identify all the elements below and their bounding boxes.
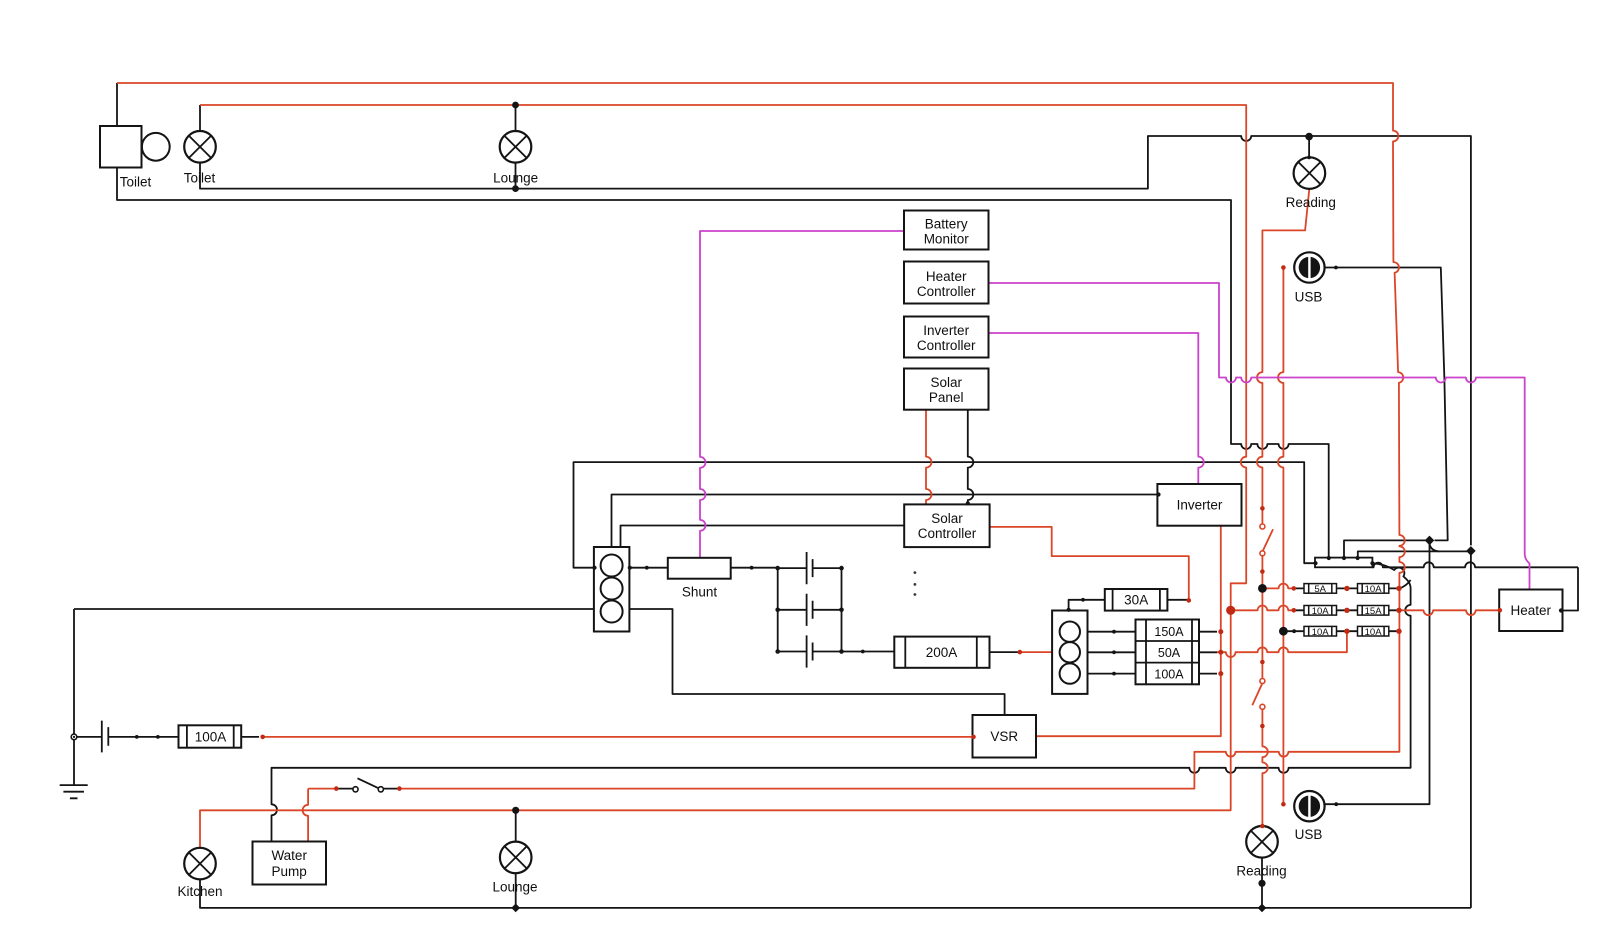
- box: Heater: [1499, 590, 1562, 632]
- switch: pump switch contacts: [353, 787, 384, 792]
- svg-text:Pump: Pump: [272, 864, 307, 879]
- wire: reading lamp (top) drop from bus y=136: [1308, 136, 1310, 158]
- wire: pump switch left contact lead: [336, 788, 353, 790]
- wire: chassis wire y=609 from battery node to terminal block left: [74, 608, 594, 610]
- wire: fuse row3 mid/right black leads: [1337, 630, 1400, 632]
- ground symbol: [60, 785, 88, 798]
- switch: switch1 contacts (reading circuit): [1260, 524, 1265, 556]
- node: row2 mid junction: [1344, 608, 1349, 613]
- svg-text:Reading: Reading: [1236, 864, 1286, 879]
- svg-text:Lounge: Lounge: [492, 880, 537, 895]
- svg-text:30A: 30A: [1124, 593, 1148, 608]
- node: lounge return junction: [512, 185, 519, 192]
- wire: battery bank row3 to 200A fuse: [842, 651, 895, 653]
- node: connector block top terminal: [1067, 608, 1071, 612]
- node: usb(top) right lead end: [1334, 266, 1338, 270]
- wire: lounge lamp (bottom) drop from red bus black: [515, 810, 517, 842]
- battery cell row1 plates: [807, 552, 813, 584]
- node: 200A red link end: [1018, 650, 1023, 655]
- node: fuse row3 feed junction on usb line: [1279, 627, 1288, 636]
- wire: battery monitor magenta to shunt top with hops: [700, 231, 904, 558]
- svg-text:50A: 50A: [1158, 646, 1181, 660]
- svg-text:10A: 10A: [1365, 584, 1383, 595]
- node: pump switch right lead end: [397, 786, 402, 791]
- node: bus-bar top terminal 1: [1327, 556, 1331, 560]
- wire: rail y=551.4 from bus-bar top corner east to diamond2: [1358, 551, 1471, 557]
- node: reading(top) feed junction: [1305, 133, 1313, 141]
- wire: pump switch lever: [358, 778, 381, 789]
- svg-text:100A: 100A: [195, 730, 227, 745]
- wire: pump switch right contact lead: [383, 788, 399, 790]
- node: battery negative terminal circle: [71, 734, 77, 740]
- wire: solar panel red lead down to solar controller with hops: [926, 410, 932, 505]
- battery cell row3 leads: [778, 651, 842, 653]
- wire: heater controller magenta east, down, bus y=377.5 east with hops, down to heater top: [989, 283, 1530, 590]
- node: solar controller top terminal: [966, 501, 970, 505]
- wire: lounge lamp (bottom) to bottom bus: [515, 873, 517, 908]
- wire: 100A fuse right black lead: [241, 736, 259, 738]
- svg-text:Kitchen: Kitchen: [177, 884, 222, 899]
- node: terminal block left terminal: [592, 566, 596, 570]
- usb outlet (top): [1294, 252, 1324, 282]
- wire: reading lamp (bottom) to bottom bus: [1261, 858, 1263, 908]
- node: usb(bottom) left terminal: [1281, 802, 1286, 807]
- battery cell row2 plates: [807, 594, 813, 626]
- fuse: 100A (starter battery): [179, 725, 242, 747]
- box: Inverter Controller: [904, 317, 989, 358]
- wire: 200A fuse right black lead: [990, 651, 1020, 653]
- node: 100A lead terminal: [1112, 672, 1116, 676]
- wire: diamond1 S-link down to y=551.4 rail: [1430, 542, 1440, 551]
- wire: battery bank right rail: [841, 568, 843, 651]
- node: heater right terminal: [1559, 608, 1563, 612]
- svg-text:VSR: VSR: [990, 729, 1018, 744]
- node: lounge(bottom) bottom-bus diamond junction: [511, 904, 520, 913]
- wire: shunt right lead to battery bank: [731, 567, 778, 569]
- fuse: 10A (row3 col2): [1358, 626, 1389, 637]
- svg-text:Battery: Battery: [925, 217, 968, 232]
- fuse: 30A: [1105, 589, 1168, 611]
- svg-text:USB: USB: [1295, 827, 1323, 842]
- node: terminal block right terminal: [628, 566, 632, 570]
- node: switch2 lower lead dot: [1260, 724, 1265, 729]
- svg-text:Inverter: Inverter: [1177, 498, 1223, 513]
- connector block (battery fuses) with 3 ring terminals: [1052, 611, 1087, 694]
- svg-text:10A: 10A: [1312, 627, 1330, 638]
- node: fuse row1 feed junction on switch1 line: [1258, 584, 1267, 593]
- wire: switch2 lower lead down with hops to reading lamp (bottom): [1262, 709, 1267, 826]
- node: row1 fuse left lead dot: [1292, 586, 1297, 591]
- wire: battery bank left rail: [777, 568, 779, 651]
- wire: diamond2 vertical continues down to bottom bus corner: [1470, 551, 1472, 908]
- node: shunt right lead terminal: [750, 566, 754, 570]
- node: row1 right end on red riser: [1396, 586, 1401, 591]
- node: 30A left lead end: [1081, 598, 1085, 602]
- fuse: 10A (row3 col1): [1304, 626, 1337, 637]
- wire: diamond1 down leg to corner west into usb (bottom) right lead: [1325, 540, 1430, 804]
- node: 100A fuse red lead end: [260, 735, 265, 740]
- wire: fuse row2 mid link: [1294, 609, 1399, 611]
- wire: lounge lamp bottom drop to bus y=188.6: [515, 163, 517, 189]
- terminal block (shunt side) with 3 ring terminals: [594, 547, 630, 632]
- svg-text:10A: 10A: [1365, 627, 1383, 638]
- wire: solar controller output to 30A fuse right lead: [990, 527, 1189, 600]
- wire: 100A fuse lead: [1199, 673, 1217, 675]
- svg-text:Controller: Controller: [918, 526, 977, 541]
- fuse: 10A (row2 col1): [1304, 606, 1337, 617]
- svg-text:5A: 5A: [1314, 584, 1326, 595]
- lamp: Lounge (top): [500, 131, 532, 163]
- lamp: Reading (top): [1294, 157, 1326, 189]
- wire: inverter controller magenta east and down to inverter top with hop: [989, 333, 1204, 484]
- node: heater left terminal: [1498, 608, 1503, 613]
- node: 50A lead terminal: [1112, 650, 1116, 654]
- battery cell row2 leads: [778, 609, 842, 611]
- wire: water pump black feed riser x=271.5 with hop over kitchen red bus, plus black bus y=767.8 east with hops, corner up at x=1410.6: [272, 640, 1411, 842]
- svg-text:Toilet: Toilet: [184, 171, 216, 186]
- node: lounge top feed junction: [512, 102, 519, 109]
- box: Solar Panel: [904, 369, 989, 410]
- wire: diamond1 west branch y=540.4 with corner down to bus-bar top: [1344, 540, 1430, 557]
- svg-text:Heater: Heater: [926, 269, 967, 284]
- fuse box: 150A / 50A / 100A: [1136, 620, 1200, 685]
- node: inverter left terminal: [1156, 492, 1160, 496]
- box: Solar Controller: [904, 504, 989, 547]
- wire: solar panel black lead down to solar controller with hops: [968, 410, 974, 505]
- node: diamond junction 1: [1425, 536, 1435, 546]
- starter battery cell plates: [102, 721, 109, 753]
- wire: terminal block right y=609 down and east bus y=694 to VSR top: [629, 609, 1004, 715]
- bus-bar rectangle: [1315, 558, 1372, 568]
- node: 50A lead end on inverter riser: [1218, 650, 1223, 655]
- node: row2 right end on red riser: [1396, 608, 1401, 613]
- fuse: 10A (row1 col2): [1358, 584, 1389, 595]
- usb outlet (bottom): [1294, 791, 1324, 821]
- wire: battery negative drop to node and ground: [73, 609, 75, 785]
- wire: switch1 lower lead to fuse row1 junction and down to switch2: [1261, 556, 1263, 679]
- node: usb(bottom) right lead end: [1334, 802, 1338, 806]
- node: battery bank output terminal: [861, 650, 865, 654]
- node: row2 fuse left lead dot: [1292, 608, 1297, 613]
- wire: fuse row1 feed from switch1 junction with hop: [1262, 584, 1294, 589]
- fuse: 5A (row1 col1): [1304, 584, 1337, 595]
- wire: red feed bus 2 y=105 east corner x=1246.2 descending, jog to x=1230.7, fuse row2 feed dot, down to kitchen/lounge bus y=810.3, kitchen drop: [200, 105, 1246, 848]
- wire: water pump switch red feed from corner down to pump with hop: [303, 789, 337, 842]
- node: reading(bottom) top terminal: [1260, 824, 1265, 829]
- box: Battery Monitor: [904, 211, 989, 250]
- switch: switch2 contacts: [1260, 679, 1265, 710]
- wire: bottom return bus y=907.9 from kitchen lamp to east riser: [200, 879, 1471, 908]
- node: bank rail joints: [775, 566, 780, 571]
- wire: bus y=567.3 east from bus-bar bottom-right with hops to heater riser: [1372, 562, 1578, 567]
- node: switch1 upper lead dot: [1260, 506, 1265, 511]
- wire: 200A fuse to connector block red link: [1020, 651, 1053, 653]
- svg-text:Heater: Heater: [1511, 603, 1552, 618]
- node: reading(bottom) bottom-bus junction: [1258, 904, 1267, 913]
- box: VSR: [973, 715, 1037, 758]
- svg-text:150A: 150A: [1154, 625, 1184, 639]
- svg-text:Inverter: Inverter: [923, 323, 969, 338]
- node: pump switch left lead end: [334, 786, 339, 791]
- starter battery leads to 100A fuse: [77, 736, 179, 738]
- node: bus-bar top terminal 3: [1356, 556, 1360, 560]
- wire: toilet fan bottom return bus y=200 to east riser x=1231 down to bus y=444 into bus-bar rect top: [117, 168, 1329, 558]
- wire: usb feed riser x=1283.4 from usb (top) down to usb (bottom): [1278, 268, 1283, 805]
- node: fuse row3 left lead end: [1292, 629, 1296, 633]
- node: 100A lead end on inverter riser: [1218, 671, 1223, 676]
- svg-text:Controller: Controller: [917, 338, 976, 353]
- svg-text:Solar: Solar: [930, 375, 962, 390]
- wire: hook from fuse row1 right end up to riser x=1410.6: [1400, 580, 1411, 588]
- svg-text:Reading: Reading: [1286, 195, 1336, 210]
- wire: bus A y=462.1 from terminal block left-mid riser west end to bus-bar left-mid: [574, 462, 1316, 568]
- lamp: Kitchen: [184, 848, 216, 880]
- wire: row3 fuse left black lead: [1283, 630, 1304, 632]
- node: lounge(bottom) feed junction: [512, 807, 519, 814]
- wire: battery 100A red bus west to VSR left: [263, 736, 973, 738]
- wire: 30A fuse right lead: [1167, 599, 1188, 601]
- svg-text:15A: 15A: [1365, 606, 1383, 617]
- wire: inverter red riser down through fuse lead junctions to VSR right: [1036, 526, 1221, 737]
- box: Inverter: [1157, 484, 1241, 526]
- wire: connector block to 50A fuse: [1088, 651, 1136, 653]
- wire: connector block to 150A fuse: [1088, 631, 1136, 633]
- battery cell row1 leads: [778, 567, 842, 569]
- node: usb(top) left terminal: [1281, 265, 1286, 270]
- fuse: Shunt: [668, 558, 731, 579]
- wire: connector block to 100A fuse: [1088, 673, 1136, 675]
- wire: shunt left lead from terminal block: [629, 567, 667, 569]
- ellipsis dots (more batteries): [914, 571, 917, 596]
- node: row3 mid junction: [1344, 629, 1349, 634]
- node: reading(top) drop end: [1307, 156, 1311, 160]
- node: diamond junction 2: [1466, 546, 1476, 556]
- svg-text:Monitor: Monitor: [924, 232, 970, 247]
- battery cell row3 plates: [807, 635, 813, 667]
- fuse: 15A (row2 col2): [1358, 606, 1389, 617]
- node: row1 mid junction: [1344, 586, 1349, 591]
- svg-text:Toilet: Toilet: [120, 175, 152, 190]
- node: row2 junction big dot: [1226, 606, 1235, 615]
- wire: red feed bus 1 y=83 from toilet fan, east corner x=1399 descending with hops, fuse rows, west bus y=751.8, jog down to switch bus y=788.6: [117, 83, 1405, 789]
- wire: 150A fuse lead to inverter red riser: [1199, 631, 1217, 633]
- wire: heater right lead up to bus y=567.3: [1563, 567, 1579, 610]
- node: reading(bottom) below-lamp junction: [1258, 880, 1265, 887]
- wire: fuse row1 mid link: [1294, 587, 1399, 589]
- svg-text:Lounge: Lounge: [493, 171, 538, 186]
- lamp: Lounge (bottom): [500, 842, 532, 874]
- node: bus-bar top terminal 2: [1342, 556, 1346, 560]
- junction dots black: [135, 102, 1563, 913]
- svg-text:Panel: Panel: [929, 390, 964, 405]
- wire: switch1 lever: [1263, 529, 1273, 551]
- wire: 50A fuse lead: [1199, 651, 1217, 653]
- node: switch1 lower lead dot: [1260, 569, 1265, 574]
- junction dots red: [260, 265, 1502, 828]
- svg-text:Solar: Solar: [931, 511, 963, 526]
- wire: bus B y=494.5 from terminal block top to inverter left: [612, 495, 1158, 548]
- svg-text:USB: USB: [1295, 290, 1323, 305]
- toilet fan motor: [100, 126, 170, 168]
- svg-text:Shunt: Shunt: [682, 585, 718, 600]
- node: 150A lead terminal: [1112, 630, 1116, 634]
- node: switch2 upper lead dot: [1260, 660, 1265, 665]
- wire: usb (top) right lead east then leaning riser down to diamond junction row: [1325, 268, 1448, 541]
- wire: fuse row2 feed from junction x=1230.7 with hops: [1231, 606, 1294, 611]
- svg-text:100A: 100A: [1154, 667, 1184, 681]
- lamp: Toilet: [184, 131, 216, 163]
- node: starter battery lead dots: [135, 735, 139, 739]
- box: Water Pump: [253, 842, 327, 885]
- wire: toilet/lounge lamp return bus y=188.6 riser x=1147.9 then bus y=136 east to corner x=1470.9: [200, 136, 1471, 545]
- node: 150A lead end on inverter riser: [1218, 629, 1223, 634]
- svg-text:Water: Water: [271, 848, 307, 863]
- svg-text:10A: 10A: [1312, 606, 1330, 617]
- svg-text:Controller: Controller: [917, 284, 976, 299]
- node: row3 right end on red riser: [1396, 629, 1401, 634]
- wire: bus-bar right-mid diagonal link down to riser x=1410.6 with hop over red vertical: [1372, 563, 1410, 640]
- wire: connector block top to 30A fuse: [1069, 600, 1105, 611]
- box: Heater Controller: [904, 262, 989, 304]
- node: VSR left terminal: [971, 735, 976, 740]
- wire: switch2 lever: [1252, 683, 1262, 705]
- wire: bus C y=525.5 from terminal block top to solar controller left: [621, 526, 905, 548]
- wire: toilet fan top drop from red bus: [116, 83, 118, 126]
- wire: reading lamp (top) red return diagonal, west jog, long drop x=1262.4 through switch1, fuse row1 dot, switch2, to reading lamp (bottom): [1257, 189, 1309, 524]
- fuse: 200A: [894, 637, 989, 668]
- svg-text:200A: 200A: [926, 645, 958, 660]
- node: 30A right lead end: [1187, 598, 1192, 603]
- wire: lounge lamp top drop: [515, 105, 517, 131]
- node: bus-bar right-mid terminal: [1370, 561, 1374, 565]
- wire: fuse row3 mid link and down-west link to 50A fuse lead: [1217, 631, 1347, 657]
- node: bus-bar left-mid terminal: [1313, 561, 1317, 565]
- wire: toilet lamp top drop: [199, 105, 201, 131]
- node: shunt left lead terminal: [645, 566, 649, 570]
- wire: fuse row2 right lead east to heater with hops: [1399, 610, 1499, 615]
- lamp: Reading (bottom): [1246, 826, 1278, 858]
